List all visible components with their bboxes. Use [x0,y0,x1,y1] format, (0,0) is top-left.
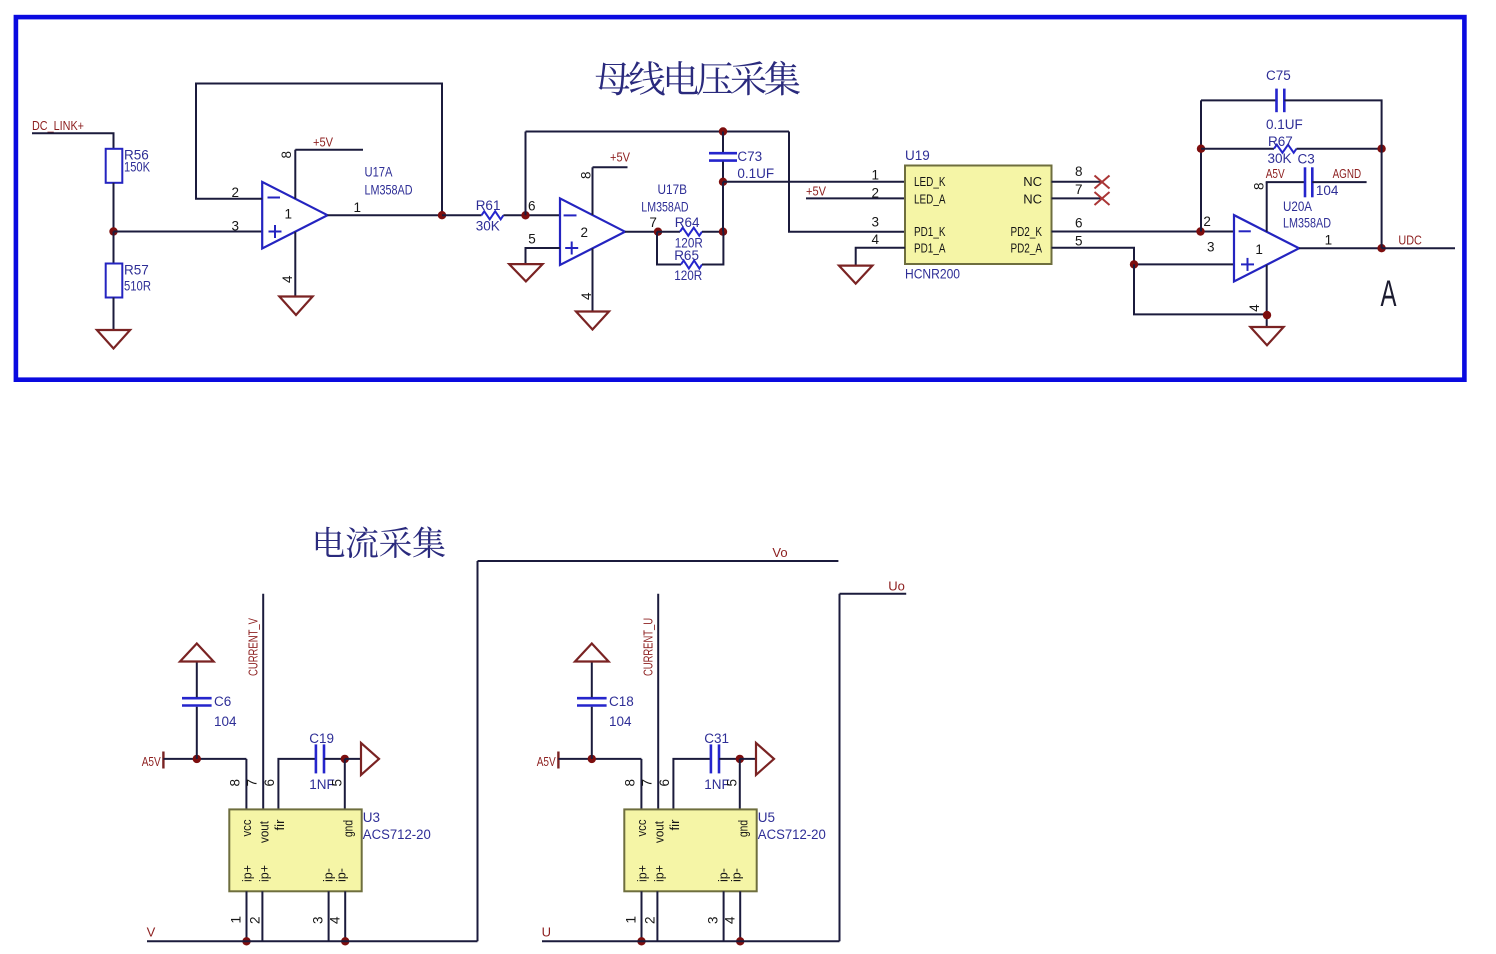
svg-text:gnd: gnd [737,820,751,837]
value 1NF [309,777,335,792]
svg-text:LED_A: LED_A [914,191,946,206]
svg-text:30K: 30K [476,219,500,234]
svg-text:DC_LINK+: DC_LINK+ [32,118,84,133]
pin 2 number U3 [248,916,263,924]
wire pin6 junction up [525,132,527,216]
wire vcc drop U5 [640,759,642,810]
pin name ip- 3 U5 [717,868,731,882]
capacitor C6 [182,698,212,705]
ground below U17B pin4 [576,312,609,330]
value 1NF [704,777,730,792]
no-connect X pin8 [1095,176,1110,189]
chip U19 HCNR200 [905,166,1052,265]
svg-text:4: 4 [871,232,879,247]
wire gnd drop U3 [344,759,346,810]
chip U3 ACS712-20 [229,809,361,891]
pin 4 label U20A [1247,304,1262,312]
svg-text:ip+: ip+ [241,865,255,882]
svg-text:3: 3 [311,916,326,924]
svg-text:LM358AD: LM358AD [641,199,688,214]
label C73 [737,149,762,164]
title 母线电压采集 [596,61,800,96]
resistor R61 [482,211,504,219]
pin 5 number U19 [1075,234,1083,249]
power A5V U3 side [142,752,164,770]
value 104 [214,714,237,729]
pin 7 label U5 [639,779,654,787]
node CURRENT_V [246,618,261,676]
ground below U19 pin4 [839,266,872,284]
wire divider node to U17A pin3 [114,231,263,233]
pin 4 number U5 [723,916,738,924]
op-amp U17A [262,182,327,249]
svg-text:7: 7 [649,215,657,230]
resistor R56 [106,149,123,183]
label R64 [675,215,700,230]
wire fir to C19 [278,759,316,810]
svg-text:NC: NC [1023,191,1042,206]
pin 7 label U3 [244,779,259,787]
pin 8 label U5 [623,779,638,787]
junction U17A output [438,211,446,219]
value 510R [124,279,151,294]
power +5V U17A [295,135,363,150]
junction C18 node [588,755,596,763]
svg-text:30K: 30K [1268,151,1292,166]
junction C73 top [719,127,727,135]
wire gnd drop U5 [739,759,741,810]
wire U17B pin8 to +5V [592,167,594,215]
pin 3 stub U5 [723,891,725,941]
pin 3 number U5 [706,916,721,924]
pin name ip- 4 U5 [729,868,743,882]
svg-text:+5V: +5V [313,135,333,150]
svg-text:5: 5 [1075,234,1083,249]
wire C75 right lead [1284,100,1381,248]
pin 4 stub U3 [344,891,346,941]
label C3 [1298,151,1315,166]
svg-text:8: 8 [578,171,593,179]
pin name gnd U5 [737,820,751,837]
value 0.1UF C75 [1266,117,1303,132]
svg-text:104: 104 [214,714,237,729]
svg-text:2: 2 [232,185,240,200]
wire R57 to ground [113,298,115,331]
op-amp U17A plus sign [269,225,282,238]
op-amp U20A plus sign [1241,258,1254,271]
capacitor C31 [711,744,719,773]
capacitor C19 [316,744,324,773]
wire left vertical R67 loop [1200,100,1202,231]
pin 7 stub U19 [1052,197,1102,199]
svg-text:8: 8 [279,151,294,159]
pin 8 label U17A [279,151,294,159]
svg-text:A: A [1381,273,1397,314]
wire vcc drop U3 [245,759,247,810]
svg-text:2: 2 [581,225,589,240]
wire R61 to U17B pin6 [503,214,560,216]
power +5V U17B [593,150,631,168]
op-amp U17A part number 1 [285,207,293,222]
pin 6 number U19 [1075,216,1083,231]
wire U20A output [1299,247,1382,249]
capacitor C75 [1277,89,1285,113]
svg-text:7: 7 [1075,182,1083,197]
pin 4 number U19 [871,232,879,247]
junction pin3 node [1130,260,1138,268]
svg-text:8: 8 [228,779,243,787]
label R57 [124,263,149,278]
wire CURRENT line U3 [262,594,264,810]
pin 4 label U17B [579,292,594,300]
svg-text:fir: fir [668,820,682,831]
wire node to R57 [113,232,115,264]
svg-text:4: 4 [328,916,343,924]
pin 8 label U20A [1251,182,1266,190]
chip U5 ACS712-20 [624,809,756,891]
junction gnd pin U3 [341,755,349,763]
pin name PD2_K [1011,224,1043,239]
svg-text:U3: U3 [363,810,380,825]
label HCNR200 [905,267,960,282]
power port right U5 [756,743,774,775]
svg-text:4: 4 [723,916,738,924]
capacitor C73 [709,153,737,160]
pin 6 label U3 [262,779,277,787]
wire pin3 node to U20A pin4 [1134,264,1267,314]
pin 1 stub U5 [641,891,643,941]
svg-text:1: 1 [1255,242,1263,257]
pin name PD1_A [914,240,946,255]
node CURRENT_U [641,618,656,676]
pin 2 stub U5 [656,891,658,941]
power port right U3 [361,743,379,775]
pin 4 stub U5 [739,891,741,941]
svg-text:R61: R61 [476,198,501,213]
wire C75 left lead [1201,99,1277,101]
svg-text:ACS712-20: ACS712-20 [363,827,431,842]
wire to power port U3 [345,758,361,760]
pin 2 label U20A [1203,214,1211,229]
pin name ip- 3 U3 [322,868,336,882]
wire A5V rail U3 [163,758,246,760]
op-amp U17B plus sign [565,242,578,255]
svg-text:C73: C73 [737,149,762,164]
wire R67 right lead [1297,148,1382,150]
junction pin1 U3 [242,937,250,945]
op-amp U20A [1234,215,1299,281]
svg-text:ip-: ip- [729,868,743,882]
label R65 [674,248,699,263]
pin 1 label U17A [354,200,362,215]
junction U17B pin6 [521,211,529,219]
svg-text:8: 8 [623,779,638,787]
pin name ip+ 1 U5 [636,865,650,882]
wire PD2_A to U20A pin3 [1052,248,1235,265]
svg-text:U17B: U17B [658,182,688,197]
wire C18 top lead [591,662,593,698]
label C31 [704,731,729,746]
svg-text:C31: C31 [704,731,729,746]
value 30K R67 [1268,151,1292,166]
capacitor C18 [577,698,607,705]
wire U17A feedback loop [196,84,442,216]
pin 1 label U20A [1325,233,1333,248]
svg-text:1: 1 [1325,233,1333,248]
wire PD2_K to U20A pin2 [1052,231,1235,233]
pin name gnd U3 [342,820,356,837]
value 120R R65 [674,268,702,283]
svg-text:5: 5 [330,779,345,787]
junction R64 left [654,228,662,236]
svg-text:LM358AD: LM358AD [1283,215,1331,230]
pin 3 number U3 [311,916,326,924]
svg-text:A5V: A5V [537,754,556,769]
svg-text:2: 2 [871,186,879,201]
no-connect X pin7 [1095,192,1110,205]
label U17A [365,165,393,180]
svg-text:104: 104 [609,714,632,729]
svg-text:3: 3 [232,219,240,234]
svg-text:3: 3 [1207,239,1215,254]
wire U17B output [625,231,658,233]
svg-text:510R: 510R [124,279,151,294]
pin 8 label U3 [228,779,243,787]
svg-text:3: 3 [871,214,879,229]
svg-text:ip-: ip- [334,868,348,882]
wire C73 bottom lead [722,162,724,182]
svg-text:120R: 120R [674,268,702,283]
power A5V U5 side [537,752,559,770]
wire CURRENT line U5 [657,594,659,810]
label C6 [214,694,231,709]
ground below U20A [1250,327,1283,345]
svg-text:PD1_K: PD1_K [914,224,946,239]
pin 5 label U3 [330,779,345,787]
resistor R65 [681,261,702,269]
label U17B [658,182,688,197]
wire output to R61 [442,214,482,216]
svg-text:A5V: A5V [1266,166,1285,181]
pin 4 number U3 [328,916,343,924]
svg-text:1: 1 [229,916,244,924]
junction pin4 U5 [736,937,744,945]
pin 2 stub U3 [261,891,263,941]
svg-text:CURRENT_U: CURRENT_U [641,618,656,676]
svg-text:U5: U5 [758,810,775,825]
wire R65 branch left [657,232,681,265]
wire U17A output [328,214,443,216]
ground below U17A [279,297,312,316]
pin 5 label U5 [725,779,740,787]
wire UDC out [1382,247,1455,249]
pin 2 number U5 [643,916,658,924]
svg-text:C18: C18 [609,694,634,709]
svg-text:V: V [147,925,156,940]
wire LED_K to U19 [723,181,905,183]
svg-text:1: 1 [285,207,293,222]
pin name vout U3 [257,821,271,843]
svg-text:5: 5 [528,231,536,246]
capacitor C3 [1305,167,1312,197]
svg-text:ip+: ip+ [636,865,650,882]
label LM358AD U17B [641,199,688,214]
pin name NC 7 [1023,191,1042,206]
wire U rail [542,940,840,942]
svg-text:0.1UF: 0.1UF [737,166,774,181]
label U5 [758,810,775,825]
ground below R57 [97,330,130,349]
svg-text:ACS712-20: ACS712-20 [758,827,826,842]
wire C6 top lead [196,662,198,698]
value 30K R61 [476,219,500,234]
pin name PD1_K [914,224,946,239]
svg-text:ip+: ip+ [652,865,666,882]
resistor R57 [106,264,123,298]
op-amp U17B minus sign [564,214,577,216]
wire Uo riser [839,594,841,942]
resistor R67 [1274,145,1297,153]
svg-text:Uo: Uo [888,578,905,593]
junction U20A pin2 [1196,227,1204,235]
svg-text:4: 4 [1247,304,1262,312]
junction U20A pin4 [1263,311,1271,319]
svg-text:R65: R65 [674,248,699,263]
pin name LED_A [914,191,946,206]
pin 5 label U17B [528,231,536,246]
pin 2 label U17A [232,185,240,200]
svg-text:R57: R57 [124,263,149,278]
wire R56 to node A1 [113,183,115,232]
svg-text:C6: C6 [214,694,231,709]
pin 3 stub U3 [328,891,330,941]
wire U17B pin4 to ground [592,248,594,311]
junction pin4 U3 [341,937,349,945]
svg-text:U19: U19 [905,148,930,163]
wire C19 to gnd pin [324,758,345,760]
value 104 C3 [1316,183,1339,198]
wire fir to C31 [673,759,711,810]
junction R67 right [1377,145,1385,153]
wire to R64 [657,231,680,233]
svg-text:ip+: ip+ [257,865,271,882]
svg-text:AGND: AGND [1333,166,1362,181]
label LM358AD U17A [365,183,413,198]
wire R65 branch right [702,232,723,265]
pin name ip+ 2 U3 [257,865,271,882]
node Uo [888,578,905,593]
pin 8 number U19 [1075,164,1083,179]
svg-text:R64: R64 [675,215,700,230]
svg-text:PD2_K: PD2_K [1011,224,1043,239]
svg-text:+5V: +5V [806,184,826,199]
label U20A [1283,199,1312,214]
pin name vcc U5 [635,820,649,837]
junction R67 left [1197,145,1205,153]
svg-text:HCNR200: HCNR200 [905,267,960,282]
wire Uo [840,593,907,595]
pin 1 number U5 [624,916,639,924]
svg-text:1: 1 [871,167,879,182]
pin 6 label U17B [528,199,536,214]
op-amp U17B part number 2 [581,225,589,240]
svg-text:PD2_A: PD2_A [1011,240,1043,255]
wire node down to R64 node [722,182,724,232]
svg-text:R67: R67 [1268,134,1293,149]
svg-text:7: 7 [639,779,654,787]
op-amp U17B [560,198,625,265]
junction gnd pin U5 [736,755,744,763]
pin 4 label U17A [280,275,295,283]
svg-text:PD1_A: PD1_A [914,240,946,255]
svg-text:LM358AD: LM358AD [365,183,413,198]
wire Vo riser [477,561,479,941]
pin 1 number U19 [871,167,879,182]
wire U20A pin8 to A5V [1266,182,1268,232]
ground below U17B pin5 [509,264,542,281]
svg-text:C19: C19 [309,731,334,746]
svg-text:A5V: A5V [142,754,161,769]
pin name ip- 4 U3 [334,868,348,882]
label R56 [124,148,149,163]
label LM358AD U20A [1283,215,1331,230]
node UDC [1398,233,1422,248]
svg-text:vout: vout [652,821,666,843]
wire R64 to node [702,231,723,233]
svg-text:NC: NC [1023,174,1042,189]
svg-text:C3: C3 [1298,151,1315,166]
wire C31 to gnd pin [719,758,740,760]
junction pin1 U5 [637,937,645,945]
pin name fir U5 [668,820,682,831]
svg-text:2: 2 [643,916,658,924]
label C18 [609,694,634,709]
pin 3 number U19 [871,214,879,229]
node DC_LINK+ [32,118,84,133]
svg-text:6: 6 [528,199,536,214]
junction LED_K node [719,178,727,186]
svg-text:U17A: U17A [365,165,393,180]
wire U17B pin5 to ground [526,248,561,264]
svg-text:5: 5 [725,779,740,787]
svg-text:C75: C75 [1266,68,1291,83]
svg-text:LED_K: LED_K [914,174,946,189]
wire C18 bottom lead [591,707,593,759]
title 电流采集 [316,526,445,558]
pin 7 label U17B [649,215,657,230]
svg-text:8: 8 [1251,182,1266,190]
svg-text:8: 8 [1075,164,1083,179]
wire Vo [478,560,839,562]
svg-text:7: 7 [244,779,259,787]
svg-text:150K: 150K [124,160,150,175]
svg-text:2: 2 [248,916,263,924]
value 120R R64 [675,236,703,251]
svg-text:U: U [542,925,551,940]
svg-text:1: 1 [624,916,639,924]
pin 1 number U3 [229,916,244,924]
svg-text:fir: fir [273,820,287,831]
label U19 [905,148,930,163]
pin 1 stub U3 [246,891,248,941]
svg-text:1: 1 [354,200,362,215]
node U [542,925,551,940]
wire top feedback run [526,131,790,133]
value 150K [124,160,150,175]
power arrow above C18 [575,644,609,662]
op-amp U20A minus sign [1239,230,1251,232]
wire C73 top lead [722,132,724,153]
